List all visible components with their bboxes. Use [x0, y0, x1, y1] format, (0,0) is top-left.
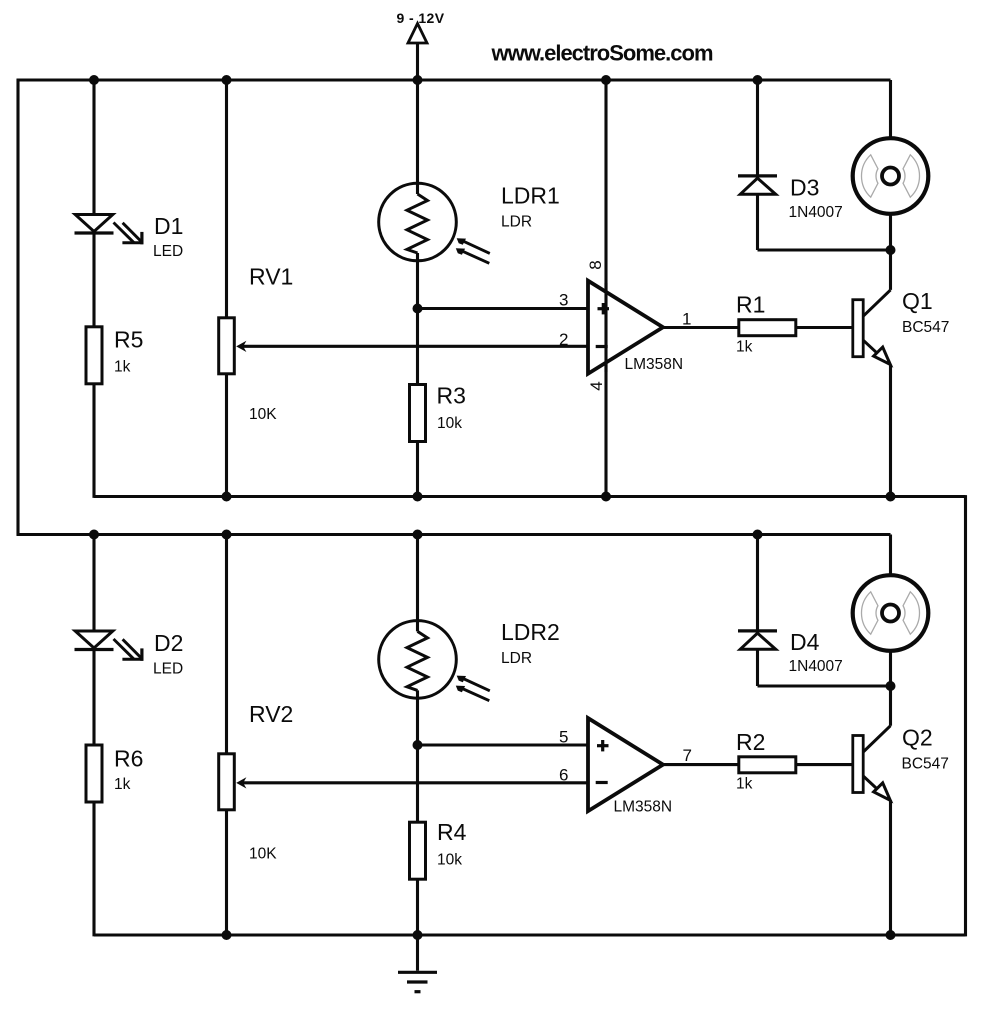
svg-text:Q1: Q1 [902, 288, 933, 314]
svg-text:LM358N: LM358N [614, 799, 673, 816]
svg-text:D4: D4 [790, 629, 820, 655]
svg-text:R3: R3 [437, 383, 466, 409]
svg-text:2: 2 [559, 330, 568, 349]
svg-text:1N4007: 1N4007 [789, 204, 843, 221]
svg-text:3: 3 [559, 291, 568, 310]
svg-text:4: 4 [587, 381, 606, 390]
svg-text:LDR: LDR [501, 650, 532, 667]
svg-text:6: 6 [559, 766, 568, 785]
svg-text:9 - 12V: 9 - 12V [397, 10, 445, 26]
svg-text:RV2: RV2 [249, 701, 293, 727]
svg-text:10K: 10K [249, 406, 277, 423]
svg-text:10k: 10k [437, 852, 462, 869]
svg-text:1: 1 [682, 310, 691, 329]
svg-text:7: 7 [683, 746, 692, 765]
svg-text:1k: 1k [114, 359, 131, 376]
svg-text:R1: R1 [736, 292, 765, 318]
svg-text:LED: LED [153, 243, 183, 260]
svg-text:1k: 1k [736, 776, 753, 793]
svg-text:LM358N: LM358N [625, 356, 684, 373]
svg-text:www.electroSome.com: www.electroSome.com [490, 41, 712, 66]
svg-text:1k: 1k [736, 339, 753, 356]
svg-text:8: 8 [586, 260, 605, 269]
svg-text:LDR2: LDR2 [501, 619, 560, 645]
svg-text:D1: D1 [154, 213, 183, 239]
svg-text:10K: 10K [249, 846, 277, 863]
svg-text:BC547: BC547 [902, 756, 949, 773]
svg-text:1k: 1k [114, 776, 131, 793]
svg-text:5: 5 [559, 728, 568, 747]
svg-text:LDR: LDR [501, 214, 532, 231]
svg-text:LED: LED [153, 661, 183, 678]
svg-text:10k: 10k [437, 415, 462, 432]
svg-text:R5: R5 [114, 327, 143, 353]
svg-text:R4: R4 [437, 819, 467, 845]
svg-text:1N4007: 1N4007 [789, 658, 843, 675]
svg-text:R6: R6 [114, 746, 143, 772]
svg-text:BC547: BC547 [902, 319, 949, 336]
svg-text:RV1: RV1 [249, 264, 293, 290]
svg-text:LDR1: LDR1 [501, 183, 560, 209]
svg-text:D3: D3 [790, 175, 819, 201]
svg-text:D2: D2 [154, 630, 183, 656]
svg-text:Q2: Q2 [902, 725, 933, 751]
svg-text:R2: R2 [736, 729, 765, 755]
